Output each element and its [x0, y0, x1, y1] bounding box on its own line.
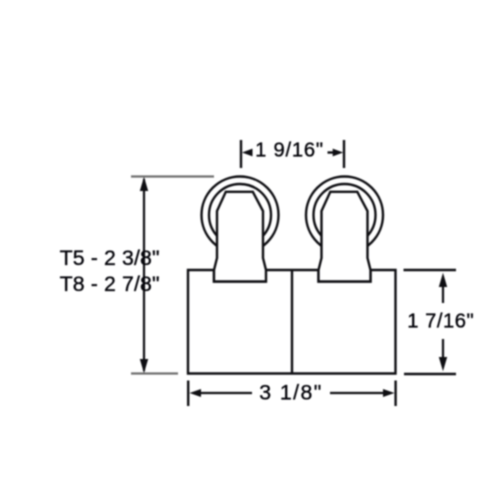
left vertical dimension line [140, 177, 148, 373]
top dimension left arrow [242, 149, 253, 157]
label 1 7/16" [407, 311, 474, 333]
right wheel outer circle [306, 177, 383, 254]
right vertical dimension line upper arrow [439, 273, 447, 303]
top dimension right tick [343, 140, 345, 168]
left bracket strap [214, 192, 266, 282]
svg-text:T8 - 2 7/8": T8 - 2 7/8" [60, 272, 160, 296]
left bottom extension line [131, 372, 178, 374]
svg-text:1 7/16": 1 7/16" [407, 311, 474, 333]
body rectangle with notches [188, 270, 396, 374]
svg-text:T5 - 2 3/8": T5 - 2 3/8" [60, 246, 160, 270]
label 3 1/8" [259, 380, 321, 404]
right bracket strap [319, 192, 371, 282]
bottom dimension right extension line [394, 381, 396, 407]
svg-text:3 1/8": 3 1/8" [259, 380, 321, 404]
right vertical dimension line lower arrow [439, 339, 447, 371]
left top extension line [131, 175, 214, 177]
right wheel inner circle [314, 184, 376, 246]
left wheel inner circle [209, 184, 271, 246]
right bottom extension line [404, 373, 456, 376]
label T8 - 2 7/8" [60, 272, 160, 296]
body center divider line [291, 270, 293, 374]
top dimension right arrow line [328, 149, 344, 157]
svg-text:1 9/16": 1 9/16" [255, 140, 323, 162]
label 1 9/16" [255, 140, 323, 162]
left wheel outer circle [202, 177, 279, 254]
bottom dimension left extension line [187, 381, 189, 407]
label T5 - 2 3/8" [60, 246, 160, 270]
top dimension left tick [240, 140, 242, 168]
bottom dimension line with arrows [190, 389, 395, 397]
right top extension line [404, 269, 457, 272]
